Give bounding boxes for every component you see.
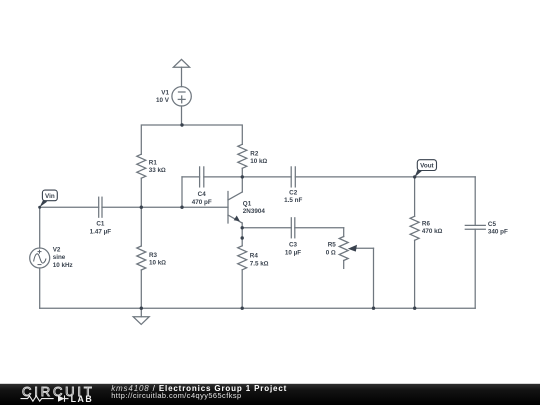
svg-text:V2: V2	[53, 247, 61, 254]
svg-text:10 V: 10 V	[156, 97, 170, 104]
svg-text:C3: C3	[289, 242, 298, 249]
svg-text:R6: R6	[422, 220, 431, 227]
svg-text:R1: R1	[149, 159, 158, 166]
svg-text:C1: C1	[96, 221, 105, 228]
svg-text:C5: C5	[488, 221, 497, 228]
svg-text:470 kΩ: 470 kΩ	[422, 228, 443, 235]
svg-text:R2: R2	[250, 151, 259, 158]
svg-text:340 pF: 340 pF	[488, 229, 508, 236]
svg-text:LAB: LAB	[71, 394, 94, 404]
svg-text:1.47 µF: 1.47 µF	[90, 228, 112, 235]
svg-text:C4: C4	[198, 191, 207, 198]
svg-text:33 kΩ: 33 kΩ	[149, 167, 166, 174]
svg-text:R5: R5	[328, 242, 337, 249]
svg-text:sine: sine	[53, 254, 66, 261]
svg-text:http://circuitlab.com/c4qyy565: http://circuitlab.com/c4qyy565cfksp	[111, 391, 241, 400]
svg-text:V1: V1	[161, 90, 169, 97]
svg-text:R3: R3	[149, 252, 158, 259]
svg-text:R4: R4	[250, 253, 259, 260]
svg-text:Q1: Q1	[243, 200, 252, 207]
svg-text:1.5 nF: 1.5 nF	[284, 197, 302, 204]
svg-text:0 Ω: 0 Ω	[326, 249, 336, 256]
svg-text:7.5 kΩ: 7.5 kΩ	[250, 260, 269, 267]
svg-text:10 µF: 10 µF	[285, 249, 301, 256]
svg-text:470 pF: 470 pF	[192, 199, 212, 206]
svg-text:Vout: Vout	[420, 163, 434, 170]
svg-text:Vin: Vin	[45, 193, 55, 200]
svg-text:10 kΩ: 10 kΩ	[149, 260, 166, 267]
svg-text:2N3904: 2N3904	[243, 208, 266, 215]
svg-text:C2: C2	[289, 189, 298, 196]
svg-text:10 kHz: 10 kHz	[53, 262, 73, 269]
svg-text:10 kΩ: 10 kΩ	[250, 158, 267, 165]
